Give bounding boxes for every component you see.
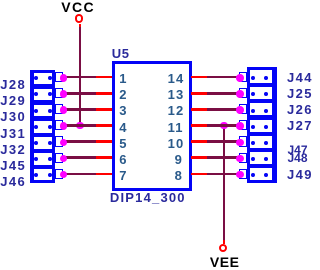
U5 pin 10 lead xyxy=(191,140,207,143)
U5 pin number 1 xyxy=(119,72,126,86)
wire J45 to U5 pin 6 xyxy=(64,156,97,159)
connector J47 tab xyxy=(239,136,247,146)
U5 pin 2 lead xyxy=(96,92,112,95)
label J25 xyxy=(287,87,313,101)
connector J25 pin dots xyxy=(251,92,255,96)
connector J26 body xyxy=(247,100,277,118)
wire J25 to U5 pin 13 xyxy=(207,92,240,95)
node J49 pin (magenta) xyxy=(236,171,244,179)
wire J32 to U5 pin 5 xyxy=(64,140,97,143)
label J44 xyxy=(287,71,313,85)
label J31 xyxy=(0,127,26,141)
power symbol VCC circle xyxy=(75,14,83,22)
connector J29 tab xyxy=(55,88,63,98)
connector J49 pin dots xyxy=(251,173,255,177)
wire J29 to U5 pin 2 xyxy=(64,92,97,95)
wire J47 to U5 pin 10 xyxy=(207,140,240,143)
connector J44 body xyxy=(247,67,277,86)
label J45 xyxy=(0,159,26,173)
wire VCC vertical to pin 4 net xyxy=(79,27,82,126)
connector J26 tab xyxy=(239,104,247,114)
connector J26 pin dots xyxy=(251,109,255,113)
wire J26 to U5 pin 12 xyxy=(207,108,240,111)
node J47 pin (magenta) xyxy=(236,139,244,147)
connector J29 body xyxy=(30,86,56,104)
U5 pin 14 lead xyxy=(191,76,207,79)
label J47 xyxy=(288,143,308,157)
connector J47 body xyxy=(247,133,277,151)
connector J45 body xyxy=(30,150,56,168)
label J30 xyxy=(0,110,26,124)
connector J46 body xyxy=(30,166,56,183)
VCC pin stub xyxy=(79,24,82,28)
U5 pin 4 lead xyxy=(96,124,112,127)
wire J27 to U5 pin 11 xyxy=(207,124,240,127)
connector J46 tab xyxy=(55,169,63,179)
U5 pin number 3 xyxy=(119,104,126,118)
label J27 xyxy=(287,119,313,133)
wire J48 to U5 pin 9 xyxy=(207,156,240,159)
U5 pin 6 lead xyxy=(96,156,112,159)
U5 pin number 12 xyxy=(168,104,185,118)
connector J48 tab xyxy=(239,153,247,163)
node J31 pin (magenta) xyxy=(60,122,68,130)
wire J31 to U5 pin 4 xyxy=(64,124,97,127)
wire J28 to U5 pin 1 xyxy=(64,76,97,79)
U5 pin 8 lead xyxy=(191,173,207,176)
value label DIP14_300 xyxy=(110,191,186,205)
label J46 xyxy=(0,175,26,189)
connector J27 tab xyxy=(239,120,247,130)
connector J49 body xyxy=(247,165,277,183)
wire J44 to U5 pin 14 xyxy=(207,76,240,79)
U5 pin number 8 xyxy=(175,169,182,183)
label J29 xyxy=(0,94,26,108)
label J26 xyxy=(287,103,313,117)
connector J44 pin dots xyxy=(251,76,255,80)
connector J30 body xyxy=(30,102,56,120)
U5 pin 1 lead xyxy=(96,76,112,79)
label J32 xyxy=(0,143,26,157)
wire J30 to U5 pin 3 xyxy=(64,108,97,111)
connector J27 pin dots xyxy=(251,125,255,129)
U5 pin 9 lead xyxy=(191,156,207,159)
power symbol VEE circle xyxy=(219,244,227,252)
U5 pin 13 lead xyxy=(191,92,207,95)
node J25 pin (magenta) xyxy=(236,90,244,98)
junction VCC net on pin 4 wire xyxy=(76,122,84,130)
connector J31 tab xyxy=(55,120,63,130)
connector J25 tab xyxy=(239,88,247,98)
connector J32 body xyxy=(30,134,56,152)
label J49 xyxy=(287,168,313,182)
connector J25 body xyxy=(247,84,277,102)
U5 pin number 14 xyxy=(168,72,185,86)
junction VEE net on pin 11 wire xyxy=(220,122,228,130)
node J44 pin (magenta) xyxy=(236,74,244,82)
U5 pin number 9 xyxy=(175,153,182,167)
U5 pin number 6 xyxy=(119,153,126,167)
U5 pin number 10 xyxy=(168,137,185,151)
connector J45 tab xyxy=(55,153,63,163)
node J48 pin (magenta) xyxy=(236,155,244,163)
wire J46 to U5 pin 7 xyxy=(64,173,97,176)
node J32 pin (magenta) xyxy=(60,139,68,147)
U5 pin number 5 xyxy=(119,137,126,151)
node J29 pin (magenta) xyxy=(60,90,68,98)
power label VEE xyxy=(203,255,247,269)
U5 pin 12 lead xyxy=(191,108,207,111)
U5 pin 7 lead xyxy=(96,173,112,176)
node J45 pin (magenta) xyxy=(60,155,68,163)
U5 pin number 7 xyxy=(119,169,126,183)
connector J28 pin dots xyxy=(34,76,38,80)
node J27 pin (magenta) xyxy=(236,122,244,130)
connector J28 body xyxy=(30,70,56,88)
connector J45 pin dots xyxy=(34,157,38,161)
power label VCC xyxy=(56,0,100,14)
IC U5 body xyxy=(112,61,193,192)
node J46 pin (magenta) xyxy=(60,171,68,179)
connector J31 body xyxy=(30,118,56,136)
connector J49 tab xyxy=(239,169,247,179)
node J26 pin (magenta) xyxy=(236,106,244,114)
label J28 xyxy=(0,78,26,92)
U5 pin number 2 xyxy=(119,88,126,102)
U5 pin number 13 xyxy=(168,88,185,102)
U5 pin number 11 xyxy=(168,121,184,135)
connector J46 pin dots xyxy=(34,173,38,177)
connector J32 pin dots xyxy=(34,141,38,145)
connector J31 pin dots xyxy=(34,125,38,129)
label J48 xyxy=(288,151,308,165)
connector J47 pin dots xyxy=(251,141,255,145)
connector J29 pin dots xyxy=(34,92,38,96)
wire J49 to U5 pin 8 xyxy=(207,173,240,176)
connector J28 tab xyxy=(55,72,63,82)
connector J27 body xyxy=(247,117,277,135)
connector J30 tab xyxy=(55,104,63,114)
U5 pin 3 lead xyxy=(96,108,112,111)
connector J48 pin dots xyxy=(251,157,255,161)
U5 pin 5 lead xyxy=(96,140,112,143)
connector J48 body xyxy=(247,149,277,167)
U5 pin number 4 xyxy=(119,121,126,135)
label U5 xyxy=(112,47,130,61)
U5 pin 11 lead xyxy=(191,124,207,127)
node J28 pin (magenta) xyxy=(60,74,68,82)
node J30 pin (magenta) xyxy=(60,106,68,114)
wire VEE vertical to pin 11 net xyxy=(223,124,226,239)
connector J32 tab xyxy=(55,136,63,146)
connector J44 tab xyxy=(239,72,247,82)
VEE pin stub xyxy=(223,240,226,245)
connector J30 pin dots xyxy=(34,109,38,113)
